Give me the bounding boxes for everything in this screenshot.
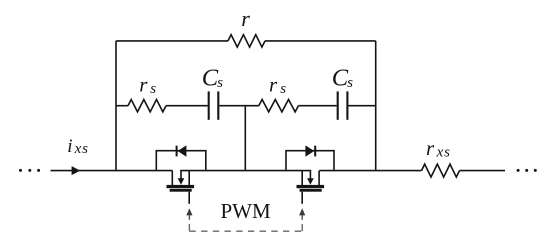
PWM gate drive arrow left bbox=[186, 208, 192, 220]
capacitor C_s (right) bbox=[338, 91, 348, 119]
diode D1 (points left) bbox=[177, 145, 187, 156]
diode D1 loop wire (left body diode) bbox=[156, 151, 206, 171]
dashed PWM control line: horizontal run bbox=[189, 230, 302, 232]
diode D2 loop wire (right body diode) bbox=[286, 151, 334, 171]
PWM gate drive arrow right bbox=[299, 208, 305, 220]
resistor r_s (right) bbox=[259, 100, 299, 112]
wire: row2 middle segment bbox=[219, 105, 258, 107]
wire: bottom rail right segment bbox=[319, 170, 421, 172]
wire: top rail right bbox=[265, 40, 376, 42]
capacitor C_s (left) bbox=[209, 91, 219, 119]
dashed PWM control line: right corner bbox=[301, 224, 303, 231]
wire: left vertical riser bbox=[115, 41, 117, 171]
wire: row2 right stub bbox=[348, 105, 375, 107]
current arrow i_xs bbox=[72, 166, 81, 175]
wire: bottom rail middle segment bbox=[180, 170, 311, 172]
resistor r (top) bbox=[228, 35, 265, 47]
wire: bottom rail left segment bbox=[51, 170, 173, 172]
wire: right vertical riser bbox=[375, 41, 377, 171]
wire: bottom rail far right bbox=[460, 170, 506, 172]
wire: row2 between right r_s and C_s bbox=[298, 105, 336, 107]
wire: top rail left bbox=[116, 40, 228, 42]
wire: row2 left stub bbox=[116, 105, 128, 107]
svg-text:PWM: PWM bbox=[221, 199, 272, 223]
continuation dots right bbox=[517, 169, 537, 172]
wire: junction riser (node between switches) bbox=[244, 106, 246, 171]
resistor r_s (left) bbox=[128, 100, 166, 112]
continuation dots left bbox=[19, 169, 40, 172]
diode D2 (points right) bbox=[305, 145, 315, 156]
dashed PWM control line: left corner bbox=[188, 224, 190, 231]
svg-text:r: r bbox=[241, 6, 250, 31]
transistor Q2 (right MOSFET) bbox=[297, 171, 325, 204]
resistor r_xs bbox=[422, 164, 460, 177]
transistor Q1 (left MOSFET) bbox=[167, 171, 195, 204]
wire: row2 between r_s and C_s bbox=[166, 105, 208, 107]
